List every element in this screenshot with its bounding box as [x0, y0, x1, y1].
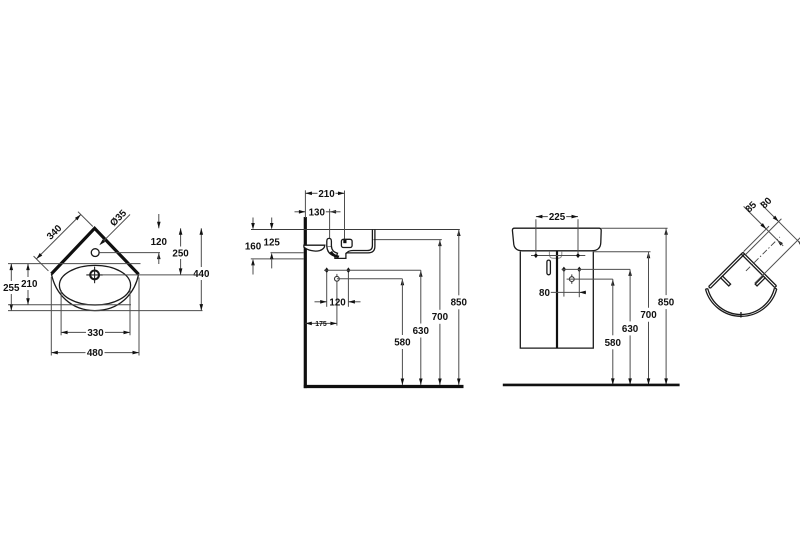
drain cross	[86, 267, 103, 284]
faucet hole	[91, 249, 99, 257]
dim 80 line	[760, 203, 798, 241]
dim 340 (rotated)	[29, 207, 93, 271]
svg-text:125: 125	[264, 238, 281, 249]
dim 330	[61, 290, 130, 339]
drain stub	[571, 274, 573, 283]
rear rim extension line	[8, 263, 141, 265]
front middle tick	[738, 312, 743, 317]
floor	[304, 385, 464, 388]
svg-text:480: 480	[87, 348, 104, 359]
ext line bracket	[755, 238, 800, 284]
inner bowl oval	[59, 265, 130, 305]
svg-text:700: 700	[640, 310, 657, 321]
fixing dots	[325, 267, 329, 273]
bowl floor sliver	[304, 245, 325, 251]
svg-text:580: 580	[394, 337, 411, 348]
dim 80	[539, 288, 586, 299]
svg-text:160: 160	[245, 242, 262, 253]
dim 700 v3	[640, 252, 657, 385]
drain symbol	[335, 276, 340, 281]
dim 630 v2	[413, 270, 430, 385]
svg-text:580: 580	[605, 338, 622, 349]
faucet left post	[327, 238, 332, 246]
cabinet top extension	[593, 251, 650, 253]
basin profile: right J inner	[346, 230, 372, 254]
wall top extension	[304, 190, 306, 218]
drain line to 580	[567, 278, 613, 280]
dim 580 v2	[394, 279, 411, 385]
dots line to 630	[324, 269, 421, 271]
door handle	[547, 260, 551, 275]
svg-text:210: 210	[318, 189, 335, 200]
cabinet body	[520, 251, 593, 348]
rim line	[251, 229, 460, 231]
left bracket tab	[721, 276, 731, 286]
centerline dash-dot	[746, 237, 780, 271]
ext line apex	[744, 226, 769, 251]
svg-text:700: 700	[432, 312, 449, 323]
svg-text:210: 210	[21, 279, 38, 290]
svg-text:250: 250	[172, 248, 189, 259]
dim 480	[51, 277, 139, 359]
dim 250	[172, 228, 189, 275]
right bracket tab	[755, 276, 765, 286]
dots line to 630	[562, 268, 631, 270]
fixing diamond right	[576, 253, 580, 258]
line 160 bottom	[251, 258, 304, 260]
drain center vertical	[336, 274, 338, 326]
svg-text:850: 850	[451, 298, 468, 309]
ext line inner apex	[745, 219, 781, 255]
svg-text:225: 225	[549, 212, 566, 223]
dim 160	[245, 218, 262, 275]
svg-text:630: 630	[622, 324, 639, 335]
basin profile: bottom outlet box	[335, 253, 346, 259]
trap curved band	[327, 246, 338, 257]
dim 210 left	[8, 264, 131, 305]
dim 210 top	[305, 189, 344, 239]
dim 580 v3	[605, 279, 622, 385]
svg-text:175: 175	[315, 321, 327, 328]
svg-text:120: 120	[151, 237, 168, 248]
line to 700	[374, 239, 442, 241]
dot verticals	[563, 269, 565, 296]
faucet dark mark	[343, 240, 346, 243]
cabinet fixing line	[531, 255, 585, 257]
basin front	[512, 228, 601, 251]
dim 85 line	[744, 206, 777, 239]
drain line to 580	[337, 278, 403, 280]
corner walls thick edges	[51, 228, 138, 274]
leader Ø35 (rotated)	[92, 207, 132, 247]
dim 850 v2	[451, 230, 468, 386]
dim 120 right	[151, 214, 168, 264]
curved front inner	[704, 255, 778, 329]
curved front outer	[702, 253, 780, 331]
dim 175	[305, 321, 337, 328]
dim 850 v3	[658, 228, 675, 385]
line 125 bottom	[271, 252, 304, 254]
svg-text:120: 120	[329, 297, 346, 308]
outer bowl outline	[51, 274, 138, 311]
dim 700 v2	[432, 240, 449, 385]
dim 225	[536, 212, 578, 253]
svg-text:80: 80	[539, 288, 550, 299]
basin profile: right J outer	[346, 230, 375, 253]
dim 125	[264, 218, 281, 269]
dim 440	[8, 228, 210, 310]
svg-text:255: 255	[3, 283, 20, 294]
svg-text:850: 850	[658, 298, 675, 309]
basin top extension	[601, 227, 667, 229]
dim 120	[315, 272, 361, 308]
door divider	[556, 251, 558, 348]
left side panel	[709, 252, 743, 286]
right side panel	[743, 252, 777, 286]
dim 630 v3	[622, 269, 639, 385]
drain extension line	[103, 274, 193, 276]
faucet hole extension line	[100, 252, 161, 254]
wall	[304, 217, 307, 388]
svg-text:630: 630	[413, 326, 430, 337]
svg-text:330: 330	[87, 328, 104, 339]
svg-text:130: 130	[309, 207, 326, 218]
dim 255 left	[3, 264, 20, 311]
door dots	[562, 267, 566, 273]
trap cup	[549, 252, 561, 259]
dim 130	[295, 207, 341, 238]
drain symbol v3	[569, 277, 574, 282]
svg-text:440: 440	[193, 269, 210, 280]
fixing diamond left	[534, 253, 538, 258]
dark wedge	[330, 251, 340, 258]
floor v3	[503, 384, 680, 387]
front caps	[705, 288, 707, 290]
faucet right block	[341, 239, 352, 247]
